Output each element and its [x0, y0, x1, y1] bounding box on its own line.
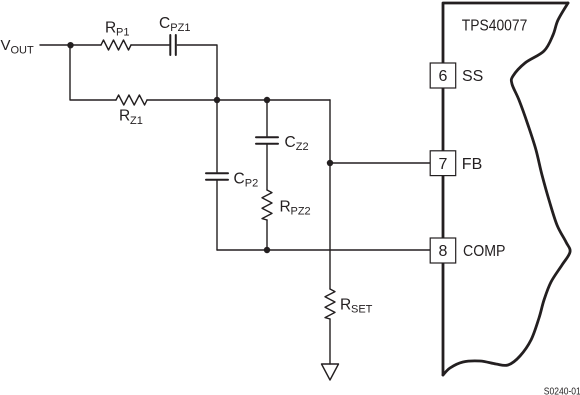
svg-text:C: C: [234, 171, 245, 188]
capacitor C_P2: [206, 173, 228, 180]
wire node down left branch: [70, 45, 116, 100]
resistor R_SET: [325, 289, 335, 319]
IC TPS40077 outline: [443, 3, 570, 375]
label R_P1: [105, 20, 129, 39]
pin 8 box: [430, 238, 456, 263]
label R_Z1: [119, 108, 143, 128]
svg-text:R: R: [105, 20, 116, 37]
svg-text:7: 7: [439, 156, 448, 173]
wire R_PZ2 to bottom node: [266, 220, 268, 250]
wire R_Z1 to corner at x=330: [147, 99, 330, 101]
svg-text:C: C: [159, 15, 170, 32]
FB wire: [330, 162, 430, 164]
svg-text:R: R: [119, 108, 130, 125]
COMP wire: [217, 249, 430, 251]
capacitor C_Z2: [256, 137, 278, 144]
node at 267,100: [264, 97, 270, 103]
capacitor C_PZ1: [170, 35, 176, 55]
wire x=267 down to C_Z2: [266, 100, 268, 136]
resistor R_PZ2: [262, 190, 272, 220]
svg-text:C: C: [285, 134, 296, 151]
resistor R_P1: [101, 40, 131, 50]
label C_P2: [234, 171, 259, 190]
label R_SET: [340, 297, 373, 316]
pin 7 box: [430, 151, 456, 176]
label R_PZ2: [280, 199, 311, 218]
label C_PZ1: [159, 15, 190, 34]
svg-text:PZ1: PZ1: [170, 22, 190, 34]
svg-text:PZ2: PZ2: [291, 206, 311, 218]
wire R_P1 to C_PZ1: [131, 44, 169, 46]
svg-text:8: 8: [439, 243, 448, 260]
label V_OUT: [1, 37, 35, 57]
svg-text:R: R: [280, 199, 291, 216]
node at 217,100: [214, 97, 220, 103]
svg-text:S0240-01: S0240-01: [544, 387, 580, 395]
wire VOUT to node: [40, 44, 101, 46]
wire R_SET to ground: [329, 319, 331, 364]
wire C_PZ1 to corner, down to node: [177, 45, 217, 100]
svg-text:OUT: OUT: [11, 45, 35, 57]
svg-text:SET: SET: [351, 304, 373, 316]
svg-text:FB: FB: [462, 156, 482, 173]
svg-text:V: V: [1, 37, 11, 54]
svg-text:Z1: Z1: [130, 115, 143, 127]
pin 6 box: [430, 63, 456, 88]
svg-text:P2: P2: [245, 178, 258, 190]
svg-text:TPS40077: TPS40077: [462, 18, 528, 35]
wire x=330 from corner to FB node and down: [329, 100, 331, 289]
resistor R_Z1: [116, 95, 147, 105]
svg-text:COMP: COMP: [463, 243, 506, 260]
wire x=217 down through C_P2: [216, 100, 218, 172]
label C_Z2: [285, 134, 309, 153]
wire C_Z2 to R_PZ2: [266, 145, 268, 190]
svg-text:6: 6: [439, 68, 448, 85]
node FB at 330,163: [327, 160, 333, 166]
node at 267,250: [264, 247, 270, 253]
node V_OUT junction: [67, 42, 73, 48]
svg-text:Z2: Z2: [296, 141, 309, 153]
svg-text:P1: P1: [116, 27, 129, 39]
svg-text:R: R: [340, 297, 351, 314]
ground: [322, 364, 339, 380]
svg-text:SS: SS: [462, 68, 483, 85]
